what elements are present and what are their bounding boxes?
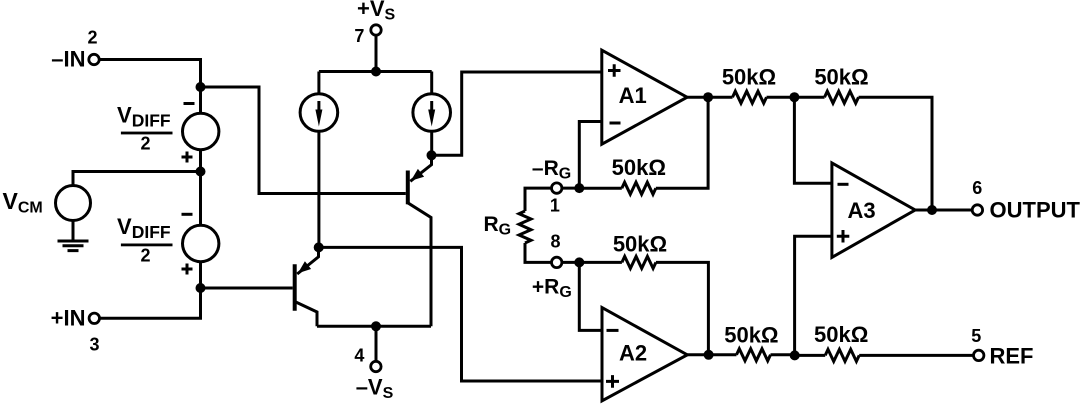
node D junction dot (Q2 emitter node) bbox=[314, 242, 324, 252]
wire R5 to node G bbox=[771, 353, 795, 357]
current source I1 circle bbox=[300, 94, 338, 132]
svg-text:–RG: –RG bbox=[532, 157, 571, 183]
svg-text:2: 2 bbox=[140, 134, 150, 154]
wire A1 feedback resistor to A1 output bbox=[656, 97, 708, 188]
wire -IN pin to junction A bbox=[99, 60, 201, 88]
wire A2 minus input bbox=[579, 262, 602, 330]
voltage source VDIFF/2 lower circle bbox=[183, 225, 219, 261]
wire +RG pin to junction bbox=[562, 261, 580, 264]
transistor Q2 collector bbox=[295, 302, 317, 327]
svg-text:3: 3 bbox=[89, 335, 99, 355]
wire A2 output bbox=[687, 353, 736, 356]
wire I1 down to node D bbox=[317, 131, 320, 247]
transistor Q1 emitter bbox=[410, 155, 431, 181]
op-amp A2 triangle bbox=[602, 308, 687, 401]
voltage source VDIFF/2 upper circle bbox=[183, 113, 219, 149]
svg-text:7: 7 bbox=[354, 26, 364, 46]
wire A2 feedback resistor to A2 output bbox=[656, 262, 709, 354]
A3 plus sign bbox=[837, 230, 850, 243]
svg-text:2: 2 bbox=[140, 245, 150, 265]
wire -RG pin to RG resistor bbox=[525, 188, 552, 211]
wire rail to I1 bbox=[317, 72, 320, 95]
node A3 output junction dot bbox=[927, 205, 937, 215]
wire VDIFF2 to node C bbox=[199, 262, 202, 288]
current source I1 arrow bbox=[317, 101, 320, 112]
wire I2 down to node E bbox=[430, 131, 433, 155]
svg-text:50kΩ: 50kΩ bbox=[612, 155, 666, 180]
svg-text:2: 2 bbox=[87, 28, 97, 48]
wire node G to R6 bbox=[795, 354, 826, 357]
svg-text:8: 8 bbox=[550, 232, 560, 252]
wire node A down to VDIFF1 bbox=[199, 87, 202, 114]
wire R2 to node F bbox=[767, 96, 795, 99]
resistor R1 50k A1 feedback bbox=[622, 182, 656, 194]
wire A1 minus input bbox=[579, 122, 602, 189]
pin 4 -VS terminal circle bbox=[371, 361, 381, 371]
pin 3 +IN terminal circle bbox=[89, 313, 99, 323]
node G junction dot bbox=[790, 350, 800, 360]
svg-text:VDIFF: VDIFF bbox=[117, 103, 171, 131]
wire node B down to VDIFF2 bbox=[199, 172, 202, 227]
svg-text:OUTPUT: OUTPUT bbox=[990, 198, 1080, 223]
node A1 output junction dot bbox=[703, 92, 713, 102]
pin 1 -RG terminal circle bbox=[552, 183, 562, 193]
svg-text:4: 4 bbox=[354, 346, 364, 366]
svg-text:50kΩ: 50kΩ bbox=[722, 65, 776, 90]
resistor R3 50k to A3 output bbox=[825, 91, 859, 103]
wire node E to A1 plus input bbox=[432, 72, 602, 155]
wire VCM to node B bbox=[73, 172, 201, 186]
svg-text:1: 1 bbox=[550, 196, 560, 216]
resistor R2 50k A1 output bbox=[733, 91, 767, 103]
resistor R6 50k REF bbox=[825, 349, 859, 361]
wire R6 to REF pin bbox=[859, 354, 974, 357]
svg-text:50kΩ: 50kΩ bbox=[613, 232, 667, 257]
node -VS rail junction dot bbox=[371, 321, 381, 331]
node C junction dot (+IN tap) bbox=[196, 283, 206, 293]
svg-text:A1: A1 bbox=[619, 83, 647, 108]
pin 7 +VS terminal circle bbox=[371, 25, 381, 35]
svg-text:+VS: +VS bbox=[357, 0, 396, 24]
node B junction dot (VCM tap) bbox=[196, 167, 206, 177]
wire node C to base of Q2 bbox=[201, 287, 293, 290]
wire node F down to A3 minus input bbox=[794, 97, 832, 183]
minus sign of VDIFF2 bbox=[182, 213, 193, 216]
node F junction dot bbox=[789, 92, 799, 102]
wire node A to base of Q1 bbox=[201, 87, 406, 194]
svg-text:50kΩ: 50kΩ bbox=[814, 322, 868, 347]
wire rail down to -VS pin bbox=[375, 326, 378, 361]
current source I2 arrow bbox=[430, 101, 433, 112]
resistor R4 50k A2 feedback bbox=[622, 256, 656, 268]
minus sign of VDIFF1 bbox=[184, 102, 195, 105]
node E junction dot (Q1 emitter node) bbox=[427, 150, 437, 160]
node A junction dot below -IN bbox=[196, 82, 206, 92]
current source I2 circle bbox=[413, 94, 451, 132]
pin 8 +RG terminal circle bbox=[552, 257, 562, 267]
transistor Q1 base bar bbox=[406, 171, 410, 205]
wire A1 output bbox=[687, 96, 732, 99]
node -RG junction dot bbox=[574, 183, 584, 193]
ground symbol bbox=[58, 241, 89, 251]
svg-text:50kΩ: 50kΩ bbox=[724, 322, 778, 347]
wire rail to I2 bbox=[430, 72, 433, 95]
A2 plus sign bbox=[606, 375, 619, 388]
pin 6 OUTPUT terminal circle bbox=[972, 205, 982, 215]
wire -RG node to A1 feedback resistor bbox=[579, 187, 622, 190]
wire -RG pin to junction bbox=[562, 187, 580, 190]
wire A3 plus input to node G bbox=[795, 236, 832, 355]
svg-text:+IN: +IN bbox=[51, 306, 86, 331]
wire node C down to +IN pin bbox=[99, 288, 200, 318]
voltage source VCM circle bbox=[56, 186, 91, 221]
A3 minus sign bbox=[838, 183, 849, 186]
plus sign of VDIFF1 bbox=[182, 152, 193, 163]
svg-text:VDIFF: VDIFF bbox=[117, 214, 171, 242]
node +RG junction dot bbox=[574, 257, 584, 267]
op-amp A1 triangle bbox=[602, 50, 687, 144]
svg-text:+RG: +RG bbox=[532, 276, 572, 302]
svg-text:RG: RG bbox=[484, 213, 512, 239]
wire node D to A2 plus input bbox=[319, 247, 602, 381]
op-amp A3 triangle bbox=[832, 163, 915, 257]
transistor Q2 base bar bbox=[293, 264, 297, 310]
transistor Q2 emitter bbox=[297, 247, 318, 274]
svg-text:–IN: –IN bbox=[51, 47, 85, 72]
wire node F to R3 bbox=[794, 96, 824, 99]
wire A3 output bbox=[915, 209, 973, 212]
wire RG resistor to +RG pin bbox=[525, 243, 552, 262]
svg-text:A3: A3 bbox=[847, 198, 875, 223]
svg-text:VCM: VCM bbox=[3, 188, 43, 217]
wire R3 to A3 output node bbox=[859, 97, 933, 210]
wire +VS supply rail bbox=[319, 70, 432, 73]
wire -VS rail bbox=[317, 325, 431, 328]
node A2 output junction dot bbox=[704, 350, 714, 360]
A1 plus sign bbox=[608, 64, 621, 77]
transistor Q1 collector bbox=[408, 203, 431, 326]
svg-text:5: 5 bbox=[971, 326, 981, 346]
svg-text:6: 6 bbox=[972, 178, 982, 198]
plus sign of VDIFF2 bbox=[182, 264, 193, 275]
resistor RG bbox=[519, 211, 531, 243]
svg-text:REF: REF bbox=[990, 344, 1034, 369]
A1 minus sign bbox=[610, 122, 621, 125]
wire +VS pin down to supply rail bbox=[375, 36, 378, 72]
resistor R5 50k A2 output bbox=[737, 349, 771, 361]
pin 5 REF terminal circle bbox=[974, 350, 984, 360]
svg-text:50kΩ: 50kΩ bbox=[814, 65, 868, 90]
svg-text:–VS: –VS bbox=[356, 375, 394, 403]
pin 2 -IN terminal circle bbox=[89, 54, 99, 64]
A2 minus sign bbox=[607, 329, 619, 332]
wire +RG node to A2 feedback resistor bbox=[579, 261, 622, 264]
svg-text:A2: A2 bbox=[619, 341, 647, 366]
wire VDIFF1 to node B bbox=[199, 150, 202, 172]
node +VS rail junction dot bbox=[371, 67, 381, 77]
ground stem bbox=[72, 221, 75, 242]
